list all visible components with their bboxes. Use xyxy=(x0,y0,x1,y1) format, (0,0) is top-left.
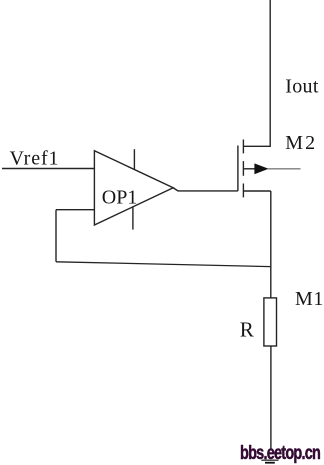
wire: feedback bottom (slightly sloped) xyxy=(56,262,271,267)
svg-text:OP1: OP1 xyxy=(102,187,138,209)
svg-text:bbs.eetop.cn: bbs.eetop.cn xyxy=(240,442,321,463)
transistor M2 channel bottom segment xyxy=(242,184,244,198)
svg-text:M1: M1 xyxy=(295,288,324,310)
resistor R xyxy=(264,298,277,346)
ground bar 1 xyxy=(261,459,278,461)
wire: inverting input xyxy=(56,209,94,211)
svg-text:M2: M2 xyxy=(285,132,317,154)
op-amp positive supply stub xyxy=(133,149,135,169)
wire: Iout drain wire from top edge down to M2 drain xyxy=(243,0,270,146)
op-amp OP1 triangle xyxy=(94,151,173,225)
wire: M2 source stub xyxy=(243,190,270,192)
wire: feedback vertical xyxy=(55,210,57,262)
transistor M2 channel middle segment xyxy=(242,161,244,176)
transistor M2 gate bar xyxy=(237,146,239,191)
wire: resistor R down to ground xyxy=(270,346,272,449)
wire: Vref1 to non-inverting input xyxy=(2,168,94,170)
svg-text:Iout: Iout xyxy=(285,75,319,97)
svg-text:Vref1: Vref1 xyxy=(10,148,60,170)
wire: M2 source down to resistor R xyxy=(270,191,272,298)
svg-text:R: R xyxy=(240,318,254,342)
wire: M2 bulk lead (gray) xyxy=(268,168,301,170)
transistor M2 channel top segment xyxy=(242,140,244,154)
ground bar 2 xyxy=(265,462,275,464)
transistor M2 bulk arrow xyxy=(254,163,268,174)
transistor M2 bulk stub xyxy=(243,168,255,170)
op-amp negative supply stub xyxy=(132,207,134,230)
wire: op-amp output to M2 gate xyxy=(173,188,238,191)
